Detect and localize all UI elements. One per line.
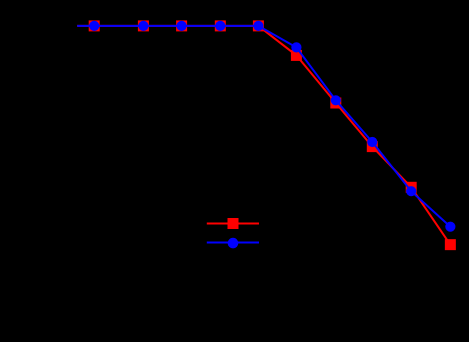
blue marker C2 [138, 21, 148, 31]
blue marker C8 [367, 137, 377, 147]
red marker S1 [89, 20, 100, 31]
red marker S2 [138, 20, 149, 31]
blue marker C9 [406, 186, 416, 196]
blue series line [77, 26, 450, 227]
legend red sample line [207, 223, 259, 225]
blue marker C4 [215, 21, 225, 31]
legend blue sample line [207, 242, 259, 244]
red marker S10 [445, 239, 456, 250]
blue marker C10 [445, 222, 455, 232]
legend red sample marker [228, 218, 239, 229]
blue marker C6 [291, 42, 301, 52]
blue marker C5 [253, 21, 263, 31]
blue marker C7 [331, 95, 341, 105]
red marker S9 [406, 182, 417, 193]
blue marker C1 [89, 21, 99, 31]
red marker S8 [367, 141, 378, 152]
red series line [77, 26, 450, 245]
blue marker C3 [177, 21, 187, 31]
red marker S4 [215, 20, 226, 31]
red marker S7 [330, 98, 341, 109]
red marker S5 [253, 20, 264, 31]
legend blue sample marker [228, 238, 239, 249]
red marker S6 [291, 50, 302, 61]
red marker S3 [176, 20, 187, 31]
